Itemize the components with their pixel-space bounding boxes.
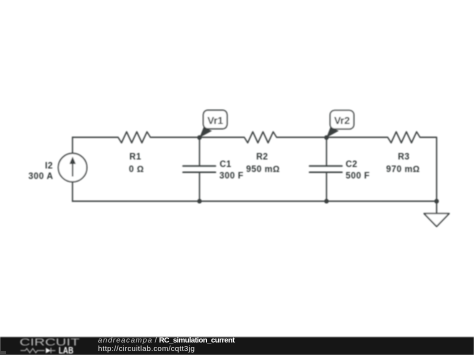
svg-text:C2: C2	[346, 159, 358, 169]
svg-text:970 mΩ: 970 mΩ	[386, 164, 420, 174]
svg-text:R3: R3	[398, 152, 410, 162]
svg-text:500 F: 500 F	[346, 170, 371, 180]
svg-text:0 Ω: 0 Ω	[129, 164, 144, 174]
svg-text:Vr2: Vr2	[334, 116, 350, 127]
svg-text:R2: R2	[256, 152, 268, 162]
svg-text:http://circuitlab.com/cqtt3jg: http://circuitlab.com/cqtt3jg	[98, 344, 195, 353]
svg-text:C1: C1	[220, 159, 232, 169]
svg-text:950 mΩ: 950 mΩ	[246, 164, 280, 174]
svg-text:I2: I2	[45, 161, 53, 171]
svg-text:300 A: 300 A	[28, 171, 53, 181]
svg-text:LAB: LAB	[59, 346, 74, 355]
svg-text:300 F: 300 F	[219, 170, 244, 180]
svg-text:Vr1: Vr1	[207, 116, 223, 127]
svg-text:R1: R1	[129, 152, 141, 162]
